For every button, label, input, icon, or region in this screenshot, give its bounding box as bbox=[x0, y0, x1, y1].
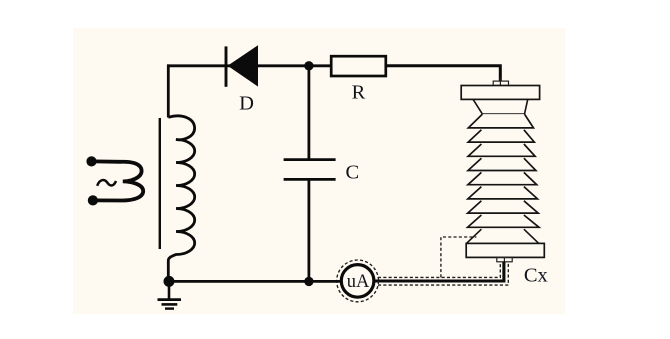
AC source bottom terminal dot bbox=[88, 195, 98, 205]
insulator shed 8 bbox=[468, 215, 539, 227]
ground lead bbox=[168, 281, 171, 299]
wire bottom rail (ground node to meter) bbox=[169, 280, 342, 283]
wire top-left vertical (transformer secondary top to top rail) bbox=[167, 64, 170, 117]
insulator shed 6 bbox=[468, 187, 538, 199]
transformer secondary winding bbox=[168, 116, 194, 281]
bushing bottom terminal stud bbox=[497, 257, 512, 261]
insulator shed 2 bbox=[468, 130, 534, 142]
svg-text:Cx: Cx bbox=[524, 265, 548, 287]
bushing bottom cap flange bbox=[466, 243, 544, 257]
insulator shed 1 bbox=[468, 114, 533, 128]
wire capacitor branch vertical lower bbox=[307, 179, 310, 281]
svg-text:uA: uA bbox=[347, 272, 370, 292]
insulator shed 3 bbox=[468, 144, 535, 156]
capacitor C bottom plate bbox=[284, 178, 336, 181]
node A junction dot (top) bbox=[304, 61, 313, 70]
bushing neck below top cap bbox=[473, 100, 528, 115]
AC tilde symbol bbox=[97, 180, 116, 186]
transformer primary winding bbox=[94, 161, 143, 200]
wire capacitor branch vertical upper bbox=[307, 64, 310, 159]
transformer core bbox=[159, 118, 161, 249]
wire top rail right (R to bushing) bbox=[386, 66, 501, 81]
svg-text:D: D bbox=[239, 93, 254, 115]
wire top rail left (to diode and node) bbox=[167, 64, 332, 67]
shield dashed upper run bbox=[378, 262, 500, 277]
shield dashed circle around meter bbox=[337, 260, 379, 302]
insulator shed 4 bbox=[468, 158, 536, 170]
svg-text:C: C bbox=[345, 162, 359, 184]
drawing background panel bbox=[73, 28, 565, 314]
wire bushing bottom to meter (measuring lead) bbox=[372, 262, 504, 281]
svg-text:R: R bbox=[352, 82, 366, 104]
node B junction dot (bottom, capacitor leg) bbox=[304, 277, 313, 286]
ground node junction dot bbox=[164, 276, 175, 287]
insulator shed 5 bbox=[468, 172, 537, 184]
guard dashed connection to flange bbox=[441, 237, 477, 277]
bushing top terminal stud bbox=[493, 78, 508, 86]
shield dashed lower run bbox=[378, 262, 508, 285]
diode D cathode bar bbox=[225, 46, 228, 86]
resistor R body bbox=[331, 56, 386, 76]
capacitor C top plate bbox=[284, 158, 336, 161]
bushing lower neck slants bbox=[466, 229, 538, 243]
AC source top terminal dot bbox=[86, 156, 96, 166]
bushing top cap flange bbox=[461, 86, 539, 100]
microammeter uA body bbox=[341, 265, 374, 298]
diode D triangle bbox=[228, 45, 258, 86]
ground symbol bbox=[158, 300, 182, 309]
insulator shed 7 bbox=[468, 201, 539, 213]
